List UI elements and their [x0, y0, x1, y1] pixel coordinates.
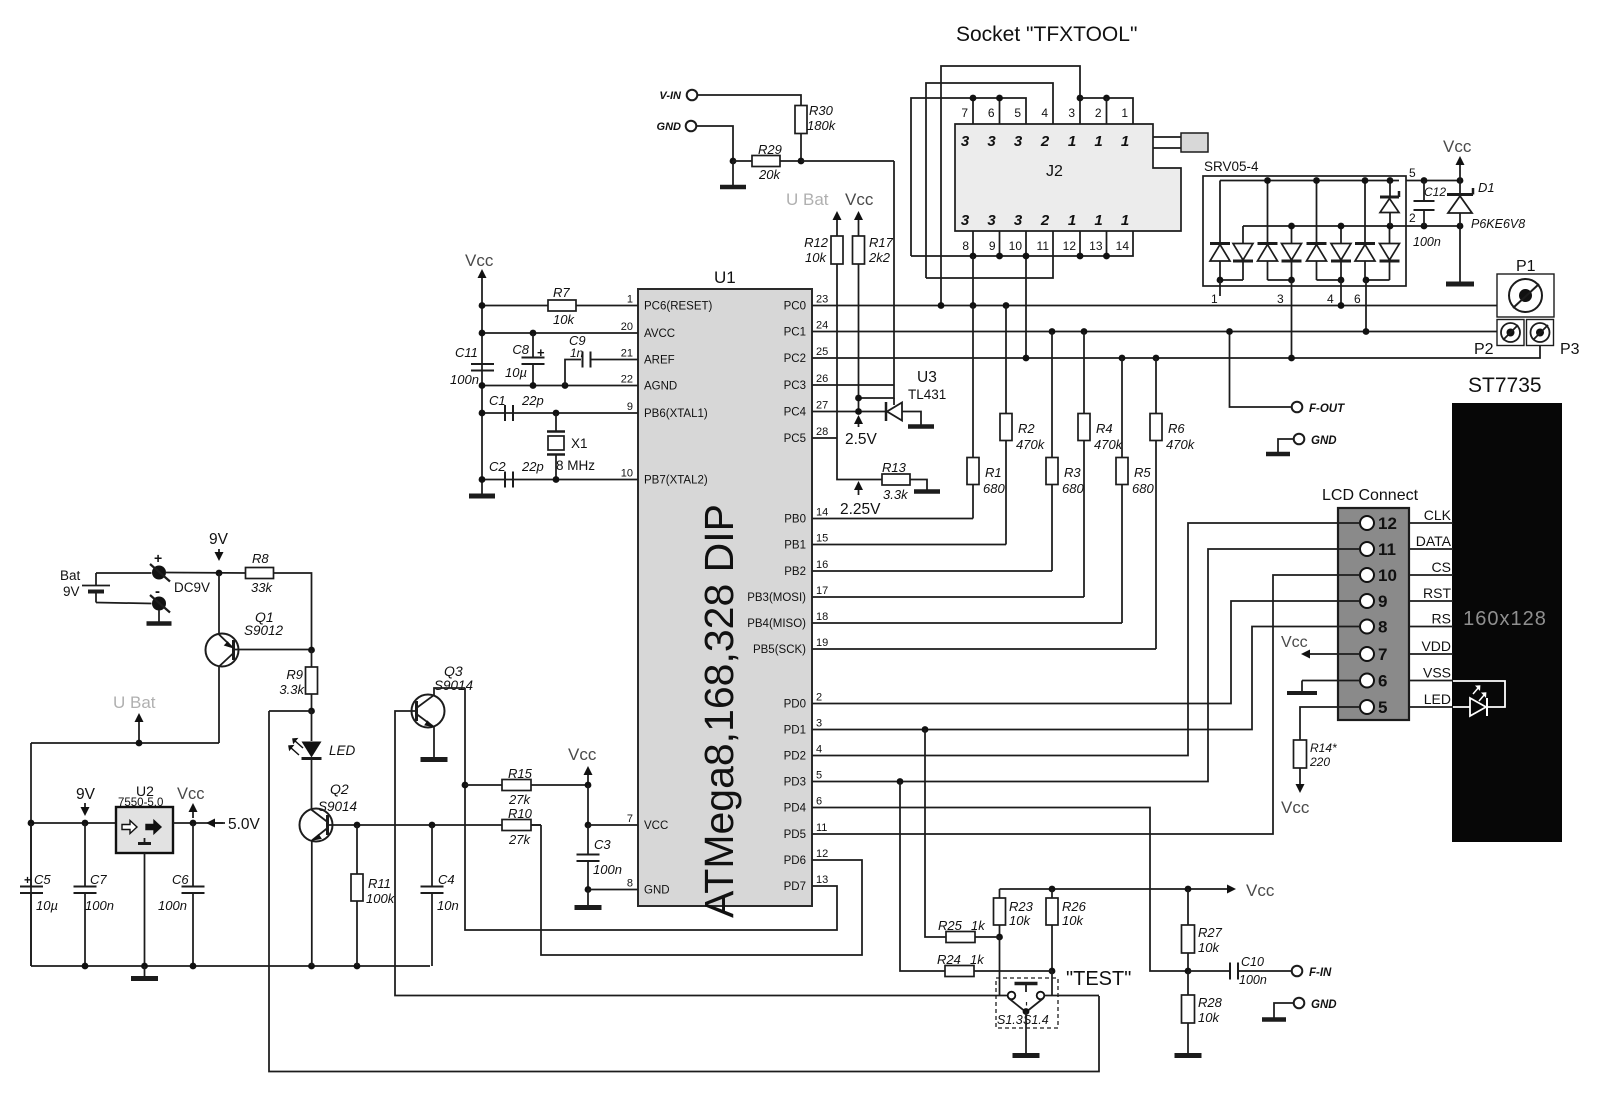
switch S1.4 contact [1037, 992, 1045, 1000]
svg-text:PB6(XTAL1): PB6(XTAL1) [644, 408, 708, 420]
svg-text:3: 3 [1014, 212, 1023, 229]
svg-text:10k: 10k [553, 312, 575, 327]
svg-text:100n: 100n [85, 898, 114, 913]
svg-text:20: 20 [621, 321, 633, 333]
svg-text:PB3(MOSI): PB3(MOSI) [747, 592, 806, 604]
svg-text:PD0: PD0 [784, 699, 806, 711]
svg-text:3: 3 [1068, 106, 1075, 120]
svg-text:GND: GND [644, 885, 670, 897]
svg-text:13: 13 [1089, 239, 1103, 253]
svg-text:10k: 10k [1009, 913, 1031, 928]
wire Q3 base to TEST [395, 711, 1008, 996]
svg-text:C11: C11 [455, 345, 478, 360]
svg-text:5: 5 [1378, 698, 1387, 717]
svg-text:9: 9 [989, 239, 996, 253]
svg-text:22: 22 [621, 374, 633, 386]
wire PD0 to LCD pin9 [812, 601, 1360, 704]
svg-text:PC3: PC3 [784, 380, 806, 392]
SRV05 internal diode up 2 [1258, 242, 1278, 245]
svg-text:6: 6 [988, 106, 995, 120]
svg-text:9V: 9V [63, 584, 80, 599]
wire PD1 to LCD pin8 [812, 627, 1360, 730]
wire R12 to PC5 [836, 264, 838, 438]
wire GND pin 8 [588, 889, 638, 891]
svg-text:10k: 10k [1062, 913, 1084, 928]
capacitor C10 [1188, 970, 1229, 972]
svg-text:Socket "TFXTOOL": Socket "TFXTOOL" [956, 23, 1137, 46]
svg-text:"TEST": "TEST" [1066, 968, 1131, 990]
svg-text:16: 16 [816, 559, 828, 571]
svg-text:5: 5 [816, 770, 822, 782]
svg-text:3.3k: 3.3k [883, 487, 909, 502]
crystal X1 [555, 413, 557, 431]
svg-text:10k: 10k [1198, 1010, 1220, 1025]
wire left vertical [30, 743, 32, 966]
svg-text:R15: R15 [508, 766, 533, 781]
svg-text:ST7735: ST7735 [1468, 374, 1542, 397]
svg-text:3: 3 [816, 718, 822, 730]
wire [800, 134, 802, 162]
svg-text:Vcc: Vcc [845, 190, 874, 209]
svg-text:LCD Connect: LCD Connect [1322, 487, 1419, 504]
svg-text:12: 12 [1063, 239, 1077, 253]
resistor R27 [1187, 889, 1189, 926]
svg-text:3.3k: 3.3k [279, 682, 305, 697]
svg-text:27: 27 [816, 400, 828, 412]
svg-text:1k: 1k [971, 918, 986, 933]
switch divider dashed [1026, 1002, 1028, 1028]
wire J2 pin7 stub [972, 98, 974, 124]
wire Vcc column [481, 306, 483, 496]
svg-text:Q3: Q3 [444, 663, 463, 679]
wire LCD pin to module [1409, 706, 1453, 708]
svg-text:PC6(RESET): PC6(RESET) [644, 301, 713, 313]
svg-text:PD1: PD1 [784, 725, 806, 737]
svg-text:R3: R3 [1064, 465, 1081, 480]
svg-text:S9012: S9012 [244, 623, 284, 638]
wire 9V node [166, 572, 246, 575]
diode D1 P6KE6V8 [1459, 181, 1461, 195]
resistor R10 [531, 824, 541, 826]
svg-text:PD3: PD3 [784, 777, 806, 789]
wire pin5 line to Vcc and D1 [1406, 180, 1460, 182]
SRV05 internal wire [1219, 261, 1221, 280]
svg-text:Vcc: Vcc [1443, 137, 1472, 156]
SRV05 internal diode down 4 [1380, 260, 1400, 263]
ground at pin 6 [1302, 680, 1360, 682]
wire R8 to base node [274, 573, 312, 650]
svg-text:100n: 100n [1239, 973, 1267, 987]
wire J2 pin8 stub [972, 231, 974, 256]
svg-text:27k: 27k [508, 832, 531, 847]
svg-text:R27: R27 [1198, 925, 1223, 940]
wire J2 pin10 stub to PC2 [1025, 231, 1027, 358]
svg-text:DATA: DATA [1416, 533, 1452, 549]
svg-text:11: 11 [816, 822, 827, 834]
svg-text:Vcc: Vcc [177, 785, 205, 803]
svg-text:R6: R6 [1168, 421, 1185, 436]
wire U Bat rail [31, 742, 219, 744]
SRV05 top bus [1220, 180, 1399, 182]
svg-text:2.5V: 2.5V [845, 431, 878, 448]
ground below D1 [1446, 282, 1474, 287]
svg-text:100n: 100n [1413, 235, 1441, 249]
svg-text:ATMega8,168,328 DIP: ATMega8,168,328 DIP [696, 504, 742, 918]
wire LCD pin to module [1409, 574, 1453, 576]
resistor R4 [1083, 332, 1085, 414]
TL431 symbol [885, 402, 888, 421]
SRV05 internal diode up 3 [1307, 242, 1327, 245]
wire PB5 [812, 648, 1156, 650]
U Bat arrow [138, 716, 140, 743]
svg-text:12: 12 [1378, 514, 1397, 533]
svg-text:2: 2 [1095, 106, 1102, 120]
capacitor C8 [532, 333, 534, 357]
svg-text:1: 1 [1121, 106, 1128, 120]
svg-text:180k: 180k [807, 118, 837, 133]
wire J2 pin9 stub [999, 231, 1001, 256]
resistor R11 [356, 825, 358, 874]
svg-text:6: 6 [1354, 292, 1361, 306]
svg-text:PC1: PC1 [784, 327, 806, 339]
svg-text:U Bat: U Bat [786, 190, 829, 209]
svg-text:R12: R12 [804, 235, 829, 250]
svg-text:20k: 20k [758, 167, 781, 182]
svg-text:1: 1 [1094, 133, 1102, 150]
wire PC5 [812, 437, 837, 439]
svg-text:R23: R23 [1009, 899, 1034, 914]
svg-text:14: 14 [816, 507, 828, 519]
wire J2 pin12 stub [1079, 231, 1081, 256]
wire PC5 to R13 [837, 438, 882, 480]
wire Q2 base line [333, 824, 503, 826]
LED [311, 711, 313, 741]
wire Vcc arrow [858, 214, 860, 236]
svg-text:1: 1 [1068, 133, 1076, 150]
LCD pin 9 [1360, 594, 1374, 608]
svg-text:PC4: PC4 [784, 407, 807, 419]
svg-text:R30: R30 [809, 103, 834, 118]
svg-text:10µ: 10µ [36, 898, 58, 913]
wire PC2 net [812, 346, 1540, 359]
wire PD4 to R27 node [812, 808, 1188, 972]
connector J2 [955, 124, 1181, 231]
wire VCC pin 7 [588, 824, 638, 826]
svg-text:3: 3 [961, 133, 970, 150]
ground symbol below rail [144, 966, 146, 977]
svg-text:28: 28 [816, 426, 828, 438]
svg-text:10: 10 [1378, 566, 1397, 585]
terminal GND bottom with ground [1294, 998, 1305, 1009]
wire PD6 loop to R10 [541, 825, 862, 955]
svg-text:18: 18 [816, 611, 828, 623]
svg-text:9V: 9V [76, 786, 96, 803]
LCD module ST7735 body [1452, 403, 1562, 842]
wire PC1 to F-OUT [1230, 332, 1292, 408]
resistor R8 [246, 568, 274, 579]
svg-text:21: 21 [621, 348, 633, 360]
wire J2 pin2 stub [1106, 98, 1108, 124]
wire U Bat arrow [836, 214, 838, 236]
SRV05 internal top right diode [1389, 181, 1391, 199]
annotation 5.0V [209, 822, 223, 824]
svg-text:100n: 100n [593, 862, 622, 877]
svg-text:+: + [154, 550, 162, 566]
SRV05 internal diode down 2 [1282, 260, 1302, 263]
svg-text:SRV05-4: SRV05-4 [1204, 159, 1259, 174]
resistor R1 [972, 306, 974, 458]
resistor R24 [945, 966, 974, 977]
resistor R7 [482, 305, 548, 307]
SRV05 internal diode up 4 [1355, 242, 1375, 245]
svg-text:C1: C1 [489, 393, 506, 408]
wire PB0 [812, 518, 973, 520]
resistor R9 [311, 650, 313, 667]
svg-text:3: 3 [987, 133, 996, 150]
wire J2 net line pin 3 to PC0 [941, 66, 1080, 306]
svg-text:X1: X1 [571, 436, 588, 451]
svg-text:10k: 10k [805, 250, 827, 265]
resistor R14 [1294, 740, 1307, 768]
resistor R6 [1155, 358, 1157, 414]
svg-text:PB1: PB1 [784, 540, 806, 552]
wire PB4 [812, 622, 1122, 624]
svg-text:4: 4 [1327, 292, 1334, 306]
wire J2 bottom bus [911, 231, 1133, 256]
svg-text:2k2: 2k2 [868, 250, 891, 265]
svg-text:TL431: TL431 [908, 387, 946, 402]
resistor R3 [1051, 332, 1053, 458]
capacitor C12 [1423, 181, 1425, 201]
svg-text:10: 10 [1009, 239, 1023, 253]
wire J2 top bus pins 7 6 5 [911, 98, 1026, 256]
wire J2 pin8 column to PC0 [972, 256, 974, 306]
svg-text:15: 15 [816, 533, 828, 545]
SRV05 internal wire [1267, 261, 1269, 280]
svg-text:F-IN: F-IN [1309, 967, 1332, 979]
svg-text:Q2: Q2 [330, 781, 349, 797]
svg-text:1: 1 [1121, 133, 1129, 150]
svg-text:1: 1 [1094, 212, 1102, 229]
svg-text:U3: U3 [917, 369, 937, 386]
svg-text:24: 24 [816, 320, 828, 332]
svg-text:1n: 1n [570, 346, 584, 360]
wire R26 to S1.4 [1051, 971, 1053, 996]
svg-text:P2: P2 [1474, 341, 1494, 358]
svg-text:17: 17 [816, 585, 828, 597]
svg-text:V-IN: V-IN [659, 90, 682, 102]
wire AGND [482, 385, 638, 387]
svg-text:GND: GND [657, 121, 682, 133]
svg-text:Vcc: Vcc [568, 745, 597, 764]
svg-text:10n: 10n [437, 898, 459, 913]
svg-text:27k: 27k [508, 792, 531, 807]
svg-text:470k: 470k [1016, 437, 1046, 452]
svg-text:DC9V: DC9V [174, 580, 210, 595]
svg-text:8: 8 [1378, 618, 1387, 637]
svg-text:23: 23 [816, 294, 828, 306]
node junction [730, 158, 737, 165]
svg-text:2: 2 [1409, 211, 1416, 225]
SRV05 internal wire [1316, 261, 1318, 280]
svg-text:C8: C8 [512, 342, 529, 357]
resistor R12 [831, 236, 843, 264]
svg-text:R5: R5 [1134, 465, 1151, 480]
switch S1 dashed box [996, 978, 1058, 1028]
svg-text:470k: 470k [1166, 437, 1196, 452]
svg-text:PC2: PC2 [784, 353, 806, 365]
resistor R26 [1051, 889, 1053, 898]
wire switch common to ground [1025, 1012, 1027, 1055]
ground [732, 161, 734, 186]
svg-text:9: 9 [1378, 592, 1387, 611]
svg-text:RS: RS [1432, 611, 1451, 627]
wire R23 to S1.3 [999, 937, 1001, 996]
power Vcc below R14 [1299, 768, 1301, 784]
svg-text:1: 1 [1068, 212, 1076, 229]
svg-text:7: 7 [961, 106, 968, 120]
svg-text:100n: 100n [450, 372, 479, 387]
svg-text:R29: R29 [758, 142, 782, 157]
LCD pin 7 [1360, 647, 1374, 661]
svg-text:13: 13 [816, 874, 828, 886]
svg-text:R26: R26 [1062, 899, 1087, 914]
SRV05 pin 6 to PC1 [1365, 280, 1367, 332]
svg-text:100n: 100n [158, 898, 187, 913]
svg-text:PB4(MISO): PB4(MISO) [747, 618, 806, 630]
svg-text:2: 2 [1040, 133, 1050, 150]
terminal GND with ground [1294, 434, 1305, 445]
wire PD5 to LCD pin10 [812, 575, 1360, 834]
wire LCD pin to module [1409, 600, 1453, 602]
svg-text:U1: U1 [714, 268, 736, 287]
svg-text:2: 2 [1040, 212, 1050, 229]
svg-text:RST: RST [1423, 585, 1451, 601]
wire pin 5 to R14 [1300, 707, 1360, 740]
wire R25 from PD1 [925, 730, 946, 938]
wire J2 net line pin 4 and 11 [926, 83, 1053, 278]
wire R9 node to left column [269, 710, 312, 712]
wire LCD pin to module [1409, 626, 1453, 628]
svg-text:S9014: S9014 [434, 678, 473, 693]
svg-text:680: 680 [1132, 481, 1154, 496]
ground below jack [158, 611, 160, 623]
wire battery minus [96, 603, 152, 604]
SRV05 internal diode down 1 [1233, 260, 1253, 263]
wire PC1 net [812, 331, 1497, 333]
wire Q3 collector [434, 688, 465, 695]
SRV05 mid bus pin2 [1243, 225, 1406, 227]
svg-text:8: 8 [962, 239, 969, 253]
wire LCD pin to module [1409, 522, 1453, 524]
svg-text:8: 8 [627, 878, 633, 890]
svg-text:C2: C2 [489, 459, 506, 474]
LCD pin 11 [1360, 542, 1374, 556]
capacitor C4 [431, 825, 433, 886]
svg-text:VSS: VSS [1423, 665, 1451, 681]
svg-text:10: 10 [621, 468, 633, 480]
wire LCD pin to module [1409, 653, 1453, 655]
connector J2 key tab [1153, 136, 1181, 138]
capacitor C9 [565, 360, 581, 386]
svg-text:R8: R8 [252, 551, 269, 566]
svg-text:R14*: R14* [1310, 741, 1337, 755]
svg-text:C10: C10 [1241, 955, 1264, 969]
wire long vertical to S1.4 [269, 711, 1099, 1072]
resistor R28 [1187, 971, 1189, 996]
svg-text:R24: R24 [937, 952, 961, 967]
wire Q1 base [239, 649, 312, 651]
wire S1.4 to right contact [1045, 995, 1100, 997]
wire PB2 [812, 570, 1052, 572]
svg-text:3: 3 [987, 212, 996, 229]
svg-text:33k: 33k [251, 580, 273, 595]
svg-text:S1.3: S1.3 [997, 1013, 1023, 1027]
svg-text:25: 25 [816, 346, 828, 358]
svg-text:5.0V: 5.0V [228, 816, 261, 833]
svg-text:VCC: VCC [644, 820, 668, 832]
resistor R5 [1121, 358, 1123, 458]
svg-text:3: 3 [1277, 292, 1284, 306]
svg-text:R9: R9 [286, 667, 303, 682]
svg-text:10k: 10k [1198, 940, 1220, 955]
wire R29 node to PC3 column [801, 160, 894, 162]
svg-text:PC5: PC5 [784, 433, 806, 445]
svg-text:11: 11 [1378, 540, 1396, 559]
wire PB1 [812, 544, 1006, 546]
svg-text:GND: GND [1311, 999, 1337, 1011]
capacitor C6 [192, 823, 194, 886]
svg-text:LED: LED [329, 743, 356, 758]
SRV05 internal diode up 1 [1210, 242, 1230, 245]
svg-text:220: 220 [1309, 755, 1330, 769]
wire PC0 net [812, 305, 1497, 307]
resistor R17 [853, 236, 865, 264]
svg-text:10µ: 10µ [505, 365, 527, 380]
capacitor C7 [84, 823, 86, 886]
svg-text:PB7(XTAL2): PB7(XTAL2) [644, 475, 708, 487]
svg-text:R10: R10 [508, 806, 533, 821]
resistor R30 [795, 106, 807, 134]
wire PD3 to LCD pin11 [812, 549, 1360, 782]
svg-text:7: 7 [627, 813, 633, 825]
svg-text:C6: C6 [172, 872, 189, 887]
wire U2 ground [144, 853, 146, 966]
capacitor C1 [504, 405, 506, 421]
svg-text:+: + [537, 345, 545, 360]
trimmer P2 [1497, 320, 1524, 346]
switch S1.3 contact [1008, 992, 1016, 1000]
svg-text:R1: R1 [985, 465, 1002, 480]
svg-text:5: 5 [1014, 106, 1021, 120]
svg-text:14: 14 [1116, 239, 1130, 253]
SRV05 internal diode down 3 [1331, 260, 1351, 263]
svg-text:GND: GND [1311, 435, 1337, 447]
svg-text:Vcc: Vcc [1246, 881, 1275, 900]
svg-text:Vcc: Vcc [1281, 634, 1308, 651]
wire PB6 XTAL1 [482, 412, 638, 414]
resistor R25 [946, 932, 975, 943]
resistor R13 [882, 474, 910, 485]
svg-text:CS: CS [1432, 559, 1451, 575]
svg-text:F-OUT: F-OUT [1309, 403, 1345, 415]
SRV05 internal wire [1364, 261, 1366, 280]
svg-text:C3: C3 [594, 837, 611, 852]
transistor Q1 S9012 [206, 634, 239, 667]
svg-text:P6KE6V8: P6KE6V8 [1471, 217, 1525, 231]
capacitor C3 [587, 825, 589, 854]
svg-text:160x128: 160x128 [1463, 608, 1547, 630]
